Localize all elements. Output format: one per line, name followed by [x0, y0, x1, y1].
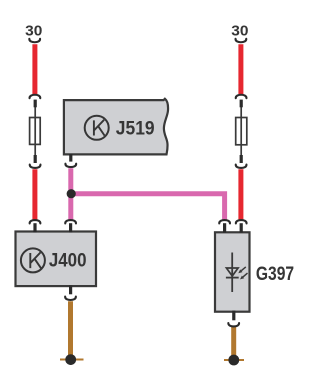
svg-text:J400: J400 — [49, 249, 87, 271]
svg-text:30: 30 — [231, 23, 248, 40]
svg-text:30: 30 — [25, 23, 42, 40]
svg-text:J519: J519 — [116, 117, 155, 139]
svg-text:G397: G397 — [256, 263, 294, 285]
